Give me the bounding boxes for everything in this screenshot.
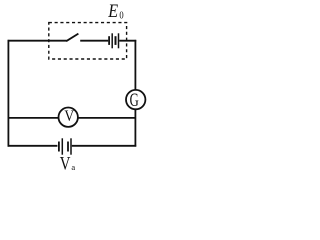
svg-text:V: V: [64, 108, 74, 125]
switch S blade (open): [66, 34, 78, 42]
wire bottom horizontal left (corner to battery Va): [8, 145, 58, 147]
svg-text:G: G: [130, 91, 139, 111]
wire left vertical: [7, 40, 9, 147]
svg-text:V: V: [60, 153, 71, 173]
wire right vertical lower (galvanometer to bottom corner): [134, 109, 136, 146]
wire middle horizontal left (left rail to voltmeter): [8, 117, 58, 119]
wire right vertical upper (corner to galvanometer): [134, 40, 136, 90]
wire middle horizontal right (voltmeter to right rail): [78, 117, 135, 119]
galvanometer G: [126, 90, 145, 111]
svg-text:a: a: [71, 162, 75, 172]
svg-text:E: E: [107, 0, 118, 21]
wire switch right contact to battery E0: [80, 40, 108, 42]
svg-text:0: 0: [119, 10, 123, 22]
wire battery E0 to top-right corner: [119, 40, 136, 42]
wire top-left horizontal (corner to switch hinge): [8, 40, 67, 42]
battery E0 (two cells): [109, 33, 118, 48]
wire bottom horizontal right (battery Va to right corner): [72, 145, 136, 147]
dashed enclosure around switch and E0: [49, 23, 127, 59]
voltmeter V: [58, 108, 77, 127]
battery Va (two cells): [59, 138, 71, 154]
